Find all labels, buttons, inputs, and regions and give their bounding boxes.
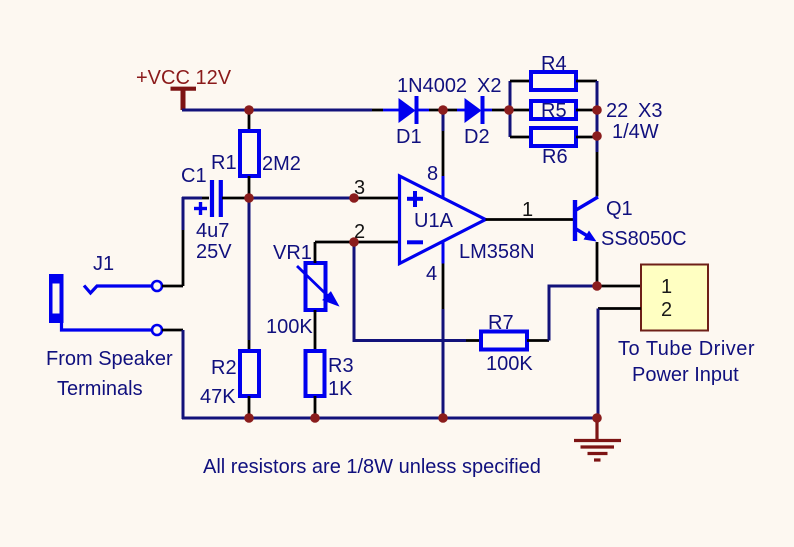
svg-text:R5: R5 [541,100,567,122]
diode D1 [399,96,417,124]
wire Q1 emitter down [596,242,599,286]
wire D1 anode stub [372,109,383,112]
connector J1 jack body [49,274,64,323]
wire feedback from pin2 down [354,242,466,341]
junction D1-D2 / pin8 net [438,105,448,115]
op-amp U1A [400,176,486,264]
terminal circle top [152,281,162,291]
svg-text:To Tube Driver: To Tube Driver [618,338,755,360]
wire junction down to R2 [248,198,251,340]
capacitor C1 [212,180,221,217]
pin 8 symbol segment [442,176,445,198]
wire emitter to connector pin 1 [597,285,641,288]
pin D1 anode [383,109,399,112]
svg-text:100K: 100K [486,353,533,375]
ground symbol [574,418,621,460]
diode D2 [465,96,483,124]
junction C1/R1/pin3 [244,193,254,203]
op-amp plus input mark [407,191,423,207]
wire left riser up to C1 [182,197,185,230]
svg-text:R7: R7 [488,312,514,334]
wire D2 to bus [492,109,510,112]
svg-text:Power Input: Power Input [632,364,739,386]
wire R4 left stub [510,80,531,83]
wire R6 left stub [510,136,531,139]
wire R5 left stub [510,109,531,112]
junction VCC/R1 [244,105,254,115]
svg-text:From Speaker: From Speaker [46,348,173,370]
wire R7 right stub [527,339,549,342]
svg-text:2: 2 [661,299,672,321]
wire VCC top rail [182,109,372,112]
svg-text:R6: R6 [542,146,568,168]
junction left bus [504,105,514,115]
pin 8 black segment [442,131,445,176]
svg-text:VR1: VR1 [273,242,312,264]
transistor Q1 [573,197,598,242]
svg-text:R1: R1 [211,152,237,174]
ground rail [182,417,597,420]
pin 2 of op-amp [354,241,399,244]
wire pin 2 down to ground [597,309,600,419]
wire left riser down to rail [182,330,185,419]
svg-text:2M2: 2M2 [262,153,301,175]
pin 3 of op-amp [354,197,399,200]
junction emitter [592,281,602,291]
pin 4 black segment [442,264,445,310]
wire D2 cathode to resistor bank [484,109,492,112]
svg-text:LM358N: LM358N [459,241,535,263]
wire junction to R1 top [248,112,251,131]
svg-text:X2: X2 [477,75,501,97]
potentiometer VR1 [306,263,326,310]
resistor R2 [240,351,259,396]
svg-text:X3: X3 [638,100,662,122]
svg-text:1N4002: 1N4002 [397,75,467,97]
svg-text:4u7: 4u7 [196,220,229,242]
wire connector pin 2 [598,307,641,310]
svg-text:R2: R2 [211,357,237,379]
svg-text:22: 22 [606,100,628,122]
svg-text:8: 8 [427,163,438,185]
svg-text:C1: C1 [181,165,207,187]
resistor R4 [531,72,576,90]
svg-text:D1: D1 [396,126,422,148]
pin 1 output wire to Q1 base [486,218,574,221]
junction rail R2 [244,413,254,423]
wire right bus down to Q1 collector [596,81,599,152]
svg-text:+VCC 12V: +VCC 12V [136,67,232,89]
wire VR1 bottom to R3 [314,310,317,351]
junction pin2 [349,237,359,247]
svg-text:Q1: Q1 [606,198,633,220]
svg-text:U1A: U1A [414,210,454,232]
svg-text:D2: D2 [464,126,490,148]
junction rail ground [592,413,602,423]
pin 4 symbol segment [442,242,445,264]
svg-text:All resistors are 1/8W unless: All resistors are 1/8W unless specified [203,456,541,478]
resistor R5 [531,101,576,119]
wire VR1 top stub [314,242,317,263]
wire R7 left stub [466,339,481,342]
svg-text:4: 4 [426,263,437,285]
resistor R1 [240,131,259,176]
wire pin 8 [442,112,445,131]
connector P1 box [641,265,708,331]
pin D2 anode [457,109,465,112]
junction pin3 [349,193,359,203]
wire R3 bottom stub [314,396,317,418]
pin C1 left [202,197,209,200]
J1 sleeve wire [62,322,153,330]
wire left bus of R4-R6 [509,81,512,137]
wire top terminal to corner [162,285,183,288]
wire R5 right stub [576,109,597,112]
terminal circle bottom [152,325,162,335]
wire R2 top stub [248,340,251,351]
resistor R6 [531,128,576,146]
power port +VCC 12V [171,89,197,110]
wire junction to pin3 [249,197,354,200]
VR1 wiper arrow [297,266,337,304]
svg-text:47K: 47K [200,386,236,408]
wire R7 riser to emitter [549,286,597,341]
op-amp minus input mark [407,240,423,244]
svg-text:25V: 25V [196,241,232,263]
wire C1 right to junction [222,197,249,200]
pin D1 cathode [418,109,429,112]
wire R6 right stub [576,136,597,139]
svg-text:Terminals: Terminals [57,378,143,400]
junction right bus R5 [592,105,602,115]
junction rail pin4 [438,413,448,423]
wire D1 cathode to D2 anode [429,109,457,112]
wire left riser lower segment [182,230,185,286]
svg-text:1K: 1K [328,378,353,400]
wire R4 right stub [576,80,597,83]
wire R2 bottom stub [248,396,251,418]
J1 tip contact hook [84,286,152,294]
wire VR1 top to pin2 junction [315,241,354,244]
pin Q1 collector [596,152,599,197]
svg-text:1: 1 [661,276,672,298]
svg-text:R3: R3 [328,355,354,377]
junction rail R3 [310,413,320,423]
wire R1 bottom stub [248,176,251,198]
wire C1 left [182,197,202,200]
svg-text:100K: 100K [266,316,313,338]
svg-text:R4: R4 [541,53,567,75]
svg-text:J1: J1 [93,253,114,275]
resistor R3 [306,351,325,396]
junction dots layer [244,105,602,423]
svg-text:1: 1 [522,199,533,221]
junction right bus R6 [592,131,602,141]
wire bottom terminal to corner [162,329,183,332]
C1 plus sign [194,202,207,215]
svg-text:SS8050C: SS8050C [601,228,687,250]
wire pin 4 down to rail [442,309,445,418]
svg-text:1/4W: 1/4W [612,121,659,143]
resistor R7 [481,332,527,350]
